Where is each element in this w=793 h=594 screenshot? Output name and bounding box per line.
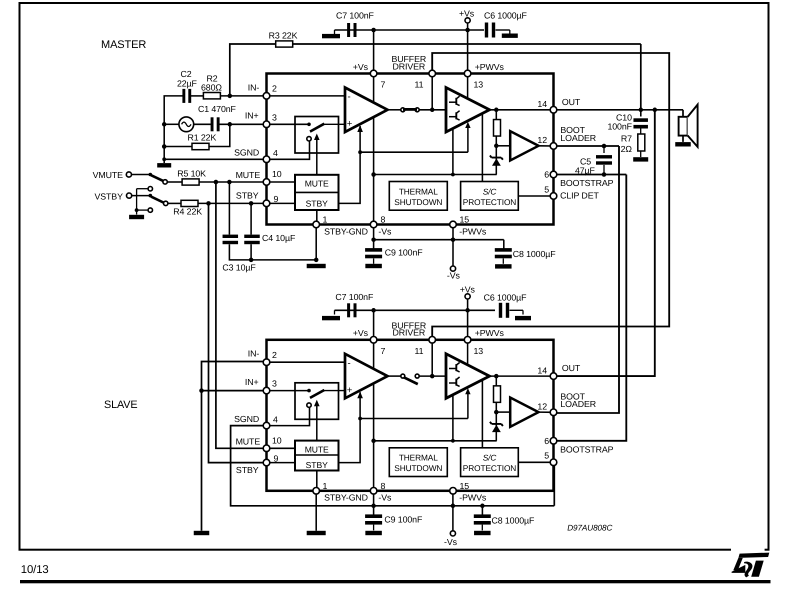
wire C2 to R2 [191, 95, 204, 97]
junction pin15 -Vs rail [451, 237, 456, 242]
svg-text:3: 3 [272, 112, 277, 122]
pin 10 MUTE U1 (master) [263, 179, 270, 186]
junction internal rail/bias U2 (slave) [371, 439, 376, 444]
svg-text:-PWVs: -PWVs [459, 226, 487, 236]
junction STBY control U2 (slave) [358, 417, 362, 421]
svg-text:-Vs: -Vs [444, 537, 458, 547]
junction slave IN tie [199, 388, 204, 393]
svg-text:C8 1000µF: C8 1000µF [513, 249, 557, 259]
svg-text:VSTBY: VSTBY [95, 191, 124, 201]
wire rail to pin7 slave [373, 310, 375, 336]
wire switch to buffer U1 (master) [419, 109, 446, 111]
wire source to C1 [194, 123, 211, 125]
svg-text:OUT: OUT [562, 97, 581, 107]
input mute switch box U1 (master) [295, 117, 339, 154]
wire IN- to op-amp U1 (master) [267, 95, 346, 97]
pin 8 -Vs U1 (master) [370, 221, 377, 228]
svg-text:10/13: 10/13 [21, 564, 49, 576]
junction bootloader node U2 (slave) [494, 410, 499, 415]
arrow MUTE control U2 (slave) [316, 405, 318, 440]
arrow STBY to buffer stage U2 (slave) [467, 392, 469, 418]
svg-text:SHUTDOWN: SHUTDOWN [394, 463, 442, 473]
junction STBY control U1 (master) [358, 150, 362, 154]
wire slave IN+ tie [202, 390, 267, 392]
svg-text:THERMAL: THERMAL [399, 186, 438, 196]
terminal -Vs slave [450, 531, 455, 536]
pin 3 IN+ U2 (slave) [263, 387, 270, 394]
contact VSTBY lower [148, 208, 152, 212]
svg-text:STBY-GND: STBY-GND [324, 493, 368, 503]
contact VMUTE switch out [163, 180, 167, 184]
pin 14 OUT U1 (master) [550, 107, 557, 114]
svg-text:10: 10 [272, 435, 282, 445]
ground input rail master [157, 163, 171, 167]
wire buffer output to pin14 U1 (master) [490, 109, 554, 111]
svg-text:IN-: IN- [248, 82, 260, 92]
wire bus bootstrap master-slave [554, 175, 627, 441]
wire pin15 to -Vs terminal master [452, 225, 454, 266]
wire R4 to pin9 STBY line [198, 202, 267, 204]
junction pin11 node U1 (master) [430, 108, 435, 113]
switch contact a U2 (slave) [307, 389, 311, 393]
svg-text:+Vs: +Vs [353, 62, 369, 72]
wire STBY-GND from box U1 (master) [316, 210, 318, 225]
wire pin1 to ground slave [315, 491, 317, 531]
switch contact b U1 (master) [307, 137, 311, 141]
svg-text:9: 9 [274, 194, 279, 204]
wire C8 drop master [503, 240, 505, 249]
transistor glyph upper U2 (slave) [449, 368, 456, 370]
svg-text:R7: R7 [621, 134, 632, 144]
junction rail pin7 slave [371, 308, 376, 313]
svg-text:DRIVER: DRIVER [393, 61, 426, 71]
svg-text:-Vs: -Vs [447, 271, 461, 281]
capacitor C9 master [365, 248, 382, 252]
ground C6 master right [502, 34, 518, 38]
svg-text:11: 11 [415, 346, 424, 356]
wire switch to buffer U2 (slave) [419, 375, 446, 377]
pin 7 +Vs U2 (slave) [370, 337, 377, 344]
svg-text:C4 10µF: C4 10µF [262, 233, 296, 243]
pin 12 bootloader U2 (slave) [550, 409, 557, 416]
capacitor C6 slave [499, 303, 502, 318]
svg-text:8: 8 [381, 215, 386, 225]
pin 5 clip det U2 (slave) [550, 459, 557, 466]
svg-text:C7 100nF: C7 100nF [335, 292, 374, 302]
junction STBY C4 [249, 201, 254, 206]
terminal +Vs master [465, 18, 470, 23]
svg-text:14: 14 [537, 365, 547, 375]
wire R2 to pin2 [220, 95, 266, 97]
transistor glyph lower U1 (master) [449, 116, 456, 118]
svg-text:R1 22K: R1 22K [188, 133, 217, 143]
resistor bootloader internal U2 (slave) [494, 386, 501, 403]
wire rail to source [164, 123, 179, 125]
svg-text:+Vs: +Vs [459, 9, 475, 19]
svg-text:LOADER: LOADER [560, 133, 596, 143]
wire bus OUT master-slave [554, 110, 655, 376]
svg-text:C3 10µF: C3 10µF [222, 263, 256, 273]
wire slave IN- tie [202, 362, 267, 391]
terminal VMUTE [126, 172, 131, 177]
ground speaker [675, 142, 691, 146]
junction pin11 node U2 (slave) [430, 374, 435, 379]
svg-text:15: 15 [460, 215, 470, 225]
svg-text:5: 5 [544, 184, 549, 194]
svg-text:R3 22K: R3 22K [269, 31, 298, 41]
svg-text:+: + [347, 119, 353, 130]
resistor R1 [192, 143, 209, 149]
switch lever input U2 (slave) [310, 390, 324, 398]
wire pin7-pin8 internal rail U1 (master) [373, 74, 375, 225]
resistor R2 [203, 93, 220, 99]
buffer driver stage U2 (slave) [446, 354, 490, 399]
junction pin8 -Vs rail [371, 237, 376, 242]
svg-text:-: - [348, 92, 351, 103]
svg-text:13: 13 [474, 80, 484, 90]
junction output node U2 (slave) [494, 374, 499, 379]
junction pin15 line slave [451, 504, 456, 509]
wire STBY control to buffer U2 (slave) [360, 418, 468, 420]
junction C4 ground line [249, 258, 254, 263]
wire +Vs rail master [335, 29, 485, 31]
svg-text:VMUTE: VMUTE [93, 170, 124, 180]
svg-text:100nF: 100nF [607, 122, 632, 132]
pin 2 IN- U2 (slave) [263, 359, 270, 366]
pin 15 -PWVs U1 (master) [450, 221, 457, 228]
THERMAL SHUTDOWN box U2 (slave) [389, 448, 447, 477]
contact VSTBY switch common [149, 194, 153, 198]
svg-text:7: 7 [381, 346, 386, 356]
wire OUT master [554, 109, 684, 111]
resistor bootloader internal U1 (master) [494, 120, 501, 137]
capacitor C8 master [495, 248, 512, 252]
svg-text:4: 4 [273, 414, 278, 424]
wire pin11 riser U2 (slave) [431, 340, 433, 376]
speaker [682, 110, 684, 117]
wire op-amp to switch U1 (master) [388, 109, 403, 111]
wire +Vs stem master [467, 23, 469, 30]
capacitor C4 [244, 235, 260, 238]
MUTE/STBY control box U1 (master) [295, 175, 339, 210]
ST logo [731, 546, 769, 577]
wire bootloader buffer to pin12 U2 (slave) [539, 411, 554, 413]
wire bus bootloader master-slave [554, 146, 620, 413]
wire bus pin11 master-slave [432, 53, 669, 337]
arrow STBY to input stage U2 (slave) [357, 392, 363, 399]
wire pin6 bootstrap master [554, 174, 627, 176]
junction C8 slave [480, 504, 485, 509]
junction rail source [162, 122, 167, 127]
svg-text:MUTE: MUTE [305, 444, 329, 454]
pin 9 STBY U2 (slave) [263, 459, 270, 466]
junction IN+ node master [228, 122, 233, 127]
wire internal bias line U2 (slave) [374, 440, 497, 442]
pin 7 +Vs U1 (master) [370, 70, 377, 77]
junction bootloader node U1 (master) [494, 144, 499, 149]
wire R1 to IN+ node [209, 124, 230, 146]
contact VSTBY upper [148, 187, 152, 191]
terminal +Vs slave [465, 294, 470, 299]
junction MUTE bus [214, 180, 219, 185]
wire R5 to pin10 MUTE line [199, 181, 266, 183]
wire C1 to pin3 [220, 123, 267, 125]
wire resistor to zener U1 (master) [495, 136, 497, 175]
resistor R3 [276, 41, 293, 47]
ground C9 slave [365, 531, 382, 535]
svg-text:-Vs: -Vs [378, 226, 392, 236]
svg-text:S/C: S/C [483, 186, 498, 196]
wire -Vs line slave [374, 505, 555, 507]
pin 4 SGND U1 (master) [263, 156, 270, 163]
wire pin13 riser U1 (master) [467, 74, 469, 99]
switch lever VMUTE [151, 175, 164, 181]
junction OUT feedback [639, 108, 644, 113]
svg-text:STBY: STBY [306, 460, 328, 470]
switch contact a U1 (master) [307, 123, 311, 127]
junction +Vs rail pin7 master [371, 28, 376, 33]
svg-text:-: - [348, 358, 351, 369]
svg-text:+PWVs: +PWVs [475, 62, 505, 72]
wire to internal resistor U2 (slave) [495, 376, 497, 386]
junction SGND rail [162, 157, 166, 161]
zener diode internal U2 (slave) [490, 422, 503, 426]
junction +Vs terminal master [465, 28, 470, 33]
capacitor C5 [596, 155, 612, 158]
wire VSTBY lower contact [137, 209, 149, 211]
junction +Vs terminal slave [465, 308, 470, 313]
junction bias tap U2 (slave) [451, 439, 455, 443]
svg-text:1: 1 [323, 481, 328, 491]
capacitor C9 slave [365, 514, 382, 518]
wire bus MUTE to slave [216, 182, 267, 448]
junction feedback node master [228, 94, 233, 99]
svg-text:+: + [347, 385, 353, 396]
wire C3 bottom to ground line [229, 244, 316, 260]
op-amp input stage U2 (slave) [345, 354, 388, 399]
resistor R5 [182, 179, 199, 185]
svg-text:R5 10K: R5 10K [177, 169, 206, 179]
pin 12 bootloader U1 (master) [550, 143, 557, 150]
svg-text:PROTECTION: PROTECTION [463, 197, 516, 207]
wire bus STBY to slave [209, 203, 267, 462]
ground zobel [633, 157, 648, 161]
svg-text:C9 100nF: C9 100nF [384, 515, 423, 525]
svg-text:3: 3 [272, 379, 277, 389]
wire C8 drop slave [481, 506, 483, 515]
bootloader buffer triangle U1 (master) [510, 131, 538, 160]
svg-text:6: 6 [544, 170, 549, 180]
svg-text:IN-: IN- [248, 349, 260, 359]
capacitor C2 [182, 89, 185, 103]
input mute switch box U2 (slave) [295, 383, 339, 420]
pin 2 IN- U1 (master) [263, 93, 270, 100]
capacitor C7 master [347, 23, 350, 37]
switch contact b U2 (slave) [307, 403, 311, 407]
S/C PROTECTION box U2 (slave) [461, 448, 519, 477]
wire VSTBY upper contact [137, 188, 149, 190]
wire pin11 riser U1 (master) [431, 74, 433, 110]
wire internal bias line U1 (master) [374, 174, 497, 176]
contact VSTBY switch out [164, 201, 168, 205]
svg-text:C8 1000µF: C8 1000µF [492, 516, 536, 526]
wire STBY control to buffer U1 (master) [360, 151, 468, 153]
svg-text:CLIP DET: CLIP DET [560, 191, 599, 201]
svg-text:DRIVER: DRIVER [393, 328, 426, 338]
wire VSTBY to switch [132, 195, 151, 197]
svg-text:C7 100nF: C7 100nF [336, 11, 375, 21]
junction internal rail/bias U1 (master) [371, 172, 376, 177]
contact VMUTE switch [149, 173, 153, 177]
junction STBY bus [206, 201, 211, 206]
zener diode internal U1 (master) [490, 156, 503, 160]
pin 1 STBY-GND U1 (master) [313, 221, 320, 228]
junction bias tap U1 (master) [451, 173, 455, 177]
resistor R7 [638, 134, 645, 151]
pin 13 +PWVs U1 (master) [464, 70, 471, 77]
svg-text:12: 12 [537, 135, 547, 145]
junction pin1 ground node [314, 258, 319, 263]
svg-text:7: 7 [381, 80, 386, 90]
wire C10 to R7 [640, 129, 642, 135]
wire to internal resistor U1 (master) [495, 110, 497, 120]
svg-text:R4 22K: R4 22K [173, 207, 202, 217]
pin 15 -PWVs U2 (slave) [450, 488, 457, 495]
svg-text:THERMAL: THERMAL [399, 453, 438, 463]
svg-text:9: 9 [274, 453, 279, 463]
wire buffer bias tap U2 (slave) [452, 395, 454, 441]
switch lever input U1 (master) [310, 124, 324, 132]
svg-text:8: 8 [381, 481, 386, 491]
wire slave SGND loop [231, 426, 374, 506]
svg-text:STBY-GND: STBY-GND [324, 226, 368, 236]
junction VSTBY ground [135, 208, 139, 212]
wire to bootloader buffer U1 (master) [496, 145, 510, 147]
svg-text:2: 2 [272, 84, 277, 94]
junction pin8 line slave [371, 504, 376, 509]
bootloader buffer triangle U2 (slave) [510, 398, 538, 427]
svg-text:D97AU808C: D97AU808C [567, 524, 612, 533]
wire rail to R1 [164, 146, 192, 148]
svg-text:680Ω: 680Ω [201, 82, 222, 92]
svg-text:STBY: STBY [236, 465, 259, 475]
wire slave IN ground drop [201, 391, 203, 531]
wire input left rail master [164, 96, 182, 163]
svg-text:12: 12 [537, 401, 547, 411]
pin 11 buffer driver U2 (slave) [429, 337, 436, 344]
terminal VSTBY [127, 193, 132, 198]
wire pin12 bootloader master [554, 145, 620, 147]
wire SGND master [164, 158, 266, 160]
ground C8 master [495, 264, 512, 268]
junction OUT bridge [653, 108, 658, 113]
wire C5 drop [603, 146, 605, 153]
svg-text:-PWVs: -PWVs [459, 493, 487, 503]
svg-text:IN+: IN+ [245, 111, 259, 121]
wire STBY control riser U2 (slave) [339, 392, 361, 462]
svg-text:BOOTSTRAP: BOOTSTRAP [560, 178, 614, 188]
junction output node U1 (master) [494, 108, 499, 113]
svg-text:C1 470nF: C1 470nF [198, 104, 237, 114]
wire rail to pin13 slave [467, 310, 469, 336]
IC boundary rectangle U1 (master) [267, 74, 554, 225]
svg-text:C6 1000µF: C6 1000µF [484, 11, 528, 21]
wire S/C protection sense U1 (master) [481, 113, 483, 181]
wire zobel C10 drop [640, 110, 642, 117]
ground VSTBY [129, 215, 144, 219]
wire SGND to switch contact U2 (slave) [267, 408, 310, 426]
pin 1 STBY-GND U2 (slave) [313, 488, 320, 495]
wire rail to pin13 master [467, 30, 469, 70]
ground C8 slave [474, 531, 491, 535]
signal source generator [179, 117, 194, 132]
switch lever VSTBY [151, 197, 164, 203]
svg-text:LOADER: LOADER [560, 399, 596, 409]
capacitor C1 [211, 117, 214, 131]
svg-text:+Vs: +Vs [353, 328, 369, 338]
junction C5 bottom [602, 172, 607, 177]
wire -Vs rail to C8 master [374, 239, 504, 241]
svg-text:MUTE: MUTE [236, 436, 261, 446]
wire C4 branch [250, 203, 252, 234]
pin 10 MUTE U2 (slave) [263, 445, 270, 452]
pin 5 clip det U1 (master) [550, 193, 557, 200]
op-amp input stage U1 (master) [345, 88, 388, 133]
svg-text:STBY: STBY [236, 191, 259, 201]
wire C3 branch [228, 182, 230, 235]
svg-text:+Vs: +Vs [460, 284, 476, 294]
svg-text:SGND: SGND [234, 148, 259, 158]
wire switch to R4 [168, 202, 181, 204]
svg-text:S/C: S/C [483, 453, 498, 463]
buffer driver stage U1 (master) [446, 88, 490, 133]
wire STBY control riser U1 (master) [339, 126, 361, 203]
svg-text:SGND: SGND [234, 414, 259, 424]
wire STBY-GND from box U2 (slave) [316, 471, 318, 491]
pin 14 OUT U2 (slave) [550, 373, 557, 380]
svg-text:C9 100nF: C9 100nF [385, 248, 424, 258]
wire pin10 to MUTE box U2 (slave) [267, 447, 296, 449]
wire pin13 riser U2 (slave) [467, 340, 469, 365]
svg-text:10: 10 [272, 169, 282, 179]
capacitor C7 slave [347, 303, 350, 317]
svg-text:IN+: IN+ [245, 377, 259, 387]
wire VMUTE to switch [132, 174, 151, 176]
pin 4 SGND U2 (slave) [263, 422, 270, 429]
junction rail R1 [162, 144, 167, 149]
IC boundary rectangle U2 (slave) [267, 340, 554, 491]
junction MUTE C3 [227, 180, 232, 185]
pin 6 bootstrap U1 (master) [550, 171, 557, 178]
ground STBY-GND slave [307, 531, 326, 535]
wire IN+ to switch box U2 (slave) [267, 390, 310, 392]
wire pin9 to STBY box U1 (master) [267, 202, 296, 204]
wire pin7-pin8 internal rail U2 (slave) [373, 340, 375, 491]
pin 11 buffer driver U1 (master) [429, 70, 436, 77]
svg-text:SHUTDOWN: SHUTDOWN [394, 197, 442, 207]
THERMAL SHUTDOWN box U1 (master) [389, 182, 447, 211]
svg-text:6: 6 [544, 436, 549, 446]
svg-text:1: 1 [323, 215, 328, 225]
ground slave IN [194, 531, 210, 535]
wire rail to pin7 master [373, 30, 375, 70]
svg-text:+PWVs: +PWVs [475, 328, 505, 338]
resistor R4 [181, 200, 198, 206]
svg-text:PROTECTION: PROTECTION [463, 463, 516, 473]
wire buffer output to pin14 U2 (slave) [490, 375, 554, 377]
wire switch to R5 [167, 181, 182, 183]
pin 6 bootstrap U2 (slave) [550, 438, 557, 445]
